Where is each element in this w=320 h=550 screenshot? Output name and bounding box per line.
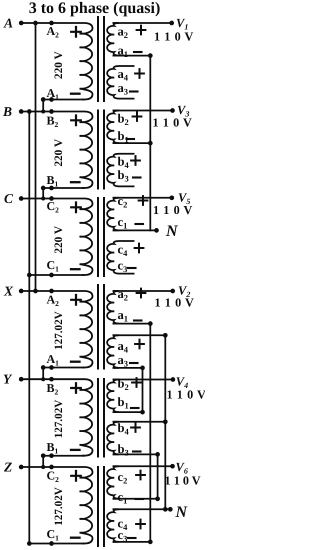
junction dot a4 corner <box>163 333 168 338</box>
svg-text:a2: a2 <box>118 25 129 41</box>
svg-text:220 V: 220 V <box>53 225 65 254</box>
svg-text:110V: 110V <box>155 296 195 310</box>
node V2 dot <box>170 289 175 294</box>
secondary winding a4-a3 y335.3 <box>107 335 119 368</box>
wire c2 to V5 <box>114 197 173 199</box>
junction dot B1-C <box>41 197 45 201</box>
svg-text:110V: 110V <box>154 30 194 44</box>
node V6 dot <box>170 464 175 469</box>
primary lead dot X <box>49 289 54 294</box>
polarity - c1 <box>136 498 144 500</box>
svg-text:c4: c4 <box>118 243 129 259</box>
secondary winding c2-c1 y466.2 <box>107 466 119 499</box>
wire C1 left segment <box>29 274 83 276</box>
secondary winding c2-c1 y197.8 <box>107 198 119 231</box>
secondary winding b2-b1 y379.5 <box>107 380 119 413</box>
polarity - b1 <box>127 138 135 140</box>
wire a4 to bus2 <box>114 335 166 509</box>
junction dot C1-bus T <box>27 273 32 278</box>
bank2 wire B1 to Z line <box>43 456 83 467</box>
svg-text:a3: a3 <box>118 353 129 369</box>
svg-text:220 V: 220 V <box>53 138 65 167</box>
node A terminal dot <box>19 21 24 26</box>
node Y terminal dot <box>19 377 24 382</box>
secondary winding a2-a1 y23 <box>107 23 119 56</box>
polarity + b4 <box>131 156 140 165</box>
svg-text:c2: c2 <box>118 194 128 210</box>
svg-text:B2: B2 <box>47 381 59 397</box>
polarity - b1 <box>131 407 139 409</box>
svg-text:b4: b4 <box>118 421 130 437</box>
svg-text:c1: c1 <box>118 215 128 231</box>
junction dot b1-a3 <box>140 410 145 415</box>
svg-text:Y: Y <box>3 372 13 387</box>
transformer primary winding B2-B1 (B phase) <box>20 112 93 189</box>
junction dot a3 corner <box>140 366 145 371</box>
transformer primary winding A2-A1 (X phase) <box>20 291 93 368</box>
junction dot bus2 end <box>163 507 168 512</box>
polarity + a2 <box>137 26 146 35</box>
wire B1 to C line <box>43 188 83 199</box>
node B terminal dot <box>19 109 24 114</box>
wire a1 to neutral bus <box>114 55 151 57</box>
polarity + a4 <box>135 69 144 78</box>
junction dot C1 bank2 end <box>27 541 32 546</box>
bank2 wire C1 left segment <box>29 543 83 545</box>
svg-text:A2: A2 <box>47 24 60 40</box>
junction dot A1-B <box>41 110 45 114</box>
primary lead dot Y <box>49 377 54 382</box>
svg-text:C: C <box>4 191 14 206</box>
node Z terminal dot <box>19 465 24 470</box>
primary lead dot A <box>49 21 54 26</box>
polarity - A1 <box>71 93 80 95</box>
junction dot A1 bank2 corner <box>41 365 46 370</box>
svg-text:127.02V: 127.02V <box>53 487 65 526</box>
polarity + B2 <box>71 383 81 393</box>
svg-text:A2: A2 <box>47 293 60 309</box>
wire b2 to V4 <box>114 379 173 381</box>
wire b4 joins a4 bus <box>114 421 166 423</box>
wire b3 to bus4 <box>114 454 158 498</box>
svg-text:110V: 110V <box>153 203 193 217</box>
svg-text:B1: B1 <box>47 440 59 456</box>
node N dot (bottom) <box>168 507 173 512</box>
svg-text:c1: c1 <box>118 490 128 506</box>
svg-text:Z: Z <box>3 460 12 475</box>
polarity - b3 <box>133 176 141 178</box>
svg-text:A1: A1 <box>47 352 60 368</box>
core segment 6 <box>98 467 104 546</box>
svg-text:C2: C2 <box>47 469 60 485</box>
node C terminal dot <box>19 196 24 201</box>
svg-text:N: N <box>175 504 189 521</box>
polarity + c2 <box>136 471 145 480</box>
svg-text:X: X <box>3 284 14 299</box>
transformer primary winding C2-C1 (C phase) <box>20 199 93 276</box>
wire b2 to V3 <box>114 110 173 112</box>
svg-text:127.02V: 127.02V <box>53 311 65 350</box>
junction dot X feed <box>33 289 38 294</box>
wire c1 joins b3 bus <box>114 498 158 500</box>
node V3 dot <box>170 108 175 113</box>
wire c3 to bus1 end <box>114 541 151 543</box>
primary lead dot B <box>49 109 54 114</box>
wire B to C1 bus <box>28 112 30 544</box>
wire a1 to bus1 <box>114 324 151 542</box>
polarity - C1 <box>71 268 80 270</box>
primary lead dot C <box>49 196 54 201</box>
junction dot B bus <box>27 109 32 114</box>
polarity + C2 <box>71 203 81 213</box>
wire b1 joins a3 bus <box>114 411 143 413</box>
secondary winding a2-a1 y291 <box>107 291 119 324</box>
wire b1 to neutral bus <box>114 142 151 144</box>
svg-text:b1: b1 <box>118 395 129 411</box>
wire A1 to B line <box>43 100 83 112</box>
transformer primary winding A2-A1 (A phase) <box>20 23 93 100</box>
svg-text:a3: a3 <box>118 81 129 97</box>
polarity - B1 <box>71 181 80 183</box>
svg-text:110V: 110V <box>165 474 201 488</box>
secondary winding b4-b3 y153.8 <box>107 154 133 187</box>
polarity - A1 <box>71 361 80 363</box>
secondary winding c4-c3 y509.3 <box>107 509 119 542</box>
junction dot B1 bank2 corner <box>41 453 46 458</box>
junction dot b4-bus <box>163 419 168 424</box>
polarity + c4 <box>136 520 145 529</box>
wire c1 to N <box>114 229 157 231</box>
node X terminal dot <box>19 289 24 294</box>
neutral bus top bank <box>149 56 151 231</box>
junction dot a1 corner <box>148 53 153 58</box>
svg-text:B: B <box>2 104 12 119</box>
polarity - c1 <box>136 223 144 225</box>
secondary winding b4-b3 y421.8 <box>107 422 119 455</box>
junction dot A1 corner <box>41 97 46 102</box>
polarity - c3 <box>128 537 136 539</box>
node V4 dot <box>171 377 176 382</box>
polarity - a1 <box>134 319 142 321</box>
svg-text:C2: C2 <box>47 199 60 215</box>
polarity + B2 <box>71 116 81 126</box>
core segment 3 <box>98 198 104 276</box>
polarity - a1 <box>134 51 142 53</box>
junction dot c1-b3 <box>155 496 160 501</box>
node V1 dot <box>169 21 174 26</box>
core segment 2 <box>98 111 104 189</box>
polarity - c3 <box>128 267 136 269</box>
transformer primary winding C2-C1 (Z phase) <box>20 467 93 544</box>
junction dot c3-bus1 <box>148 540 153 545</box>
primary bottom lead dot B1 <box>49 186 54 191</box>
wire A to X feed <box>35 23 37 291</box>
svg-text:A: A <box>3 16 13 31</box>
junction dot A1-Y <box>41 377 45 381</box>
primary lead dot Z <box>49 465 54 470</box>
polarity - C1 <box>71 537 80 539</box>
polarity - b3 <box>133 450 141 452</box>
core segment 4 <box>98 285 104 369</box>
wire c4 to N <box>114 508 171 510</box>
primary bottom lead dot A1 <box>49 97 54 102</box>
wire a3 to bus3 <box>114 368 143 412</box>
polarity + C2 <box>71 471 81 481</box>
polarity + a4 <box>135 340 144 349</box>
polarity + A2 <box>71 27 81 37</box>
node V5 dot <box>169 195 174 200</box>
secondary winding a4-a3 y66 <box>107 66 133 99</box>
wire a2 to V1 <box>114 22 172 24</box>
transformer primary winding B2-B1 (Y phase) <box>20 379 93 456</box>
svg-text:a2: a2 <box>118 287 129 303</box>
svg-text:N: N <box>165 223 179 240</box>
junction dot B1-Z <box>41 465 45 469</box>
junction dot b1-bus <box>148 141 153 146</box>
svg-text:C1: C1 <box>47 527 60 543</box>
polarity - a3 <box>130 362 138 364</box>
polarity + A2 <box>71 295 81 305</box>
svg-text:b3: b3 <box>118 168 129 184</box>
svg-text:b2: b2 <box>118 112 129 128</box>
polarity - B1 <box>71 449 80 451</box>
svg-text:a1: a1 <box>118 308 129 324</box>
svg-text:C1: C1 <box>47 258 60 274</box>
junction dot a1 corner (bank2) <box>148 321 153 326</box>
svg-text:c2: c2 <box>118 470 128 486</box>
core segment 5 <box>98 379 104 457</box>
polarity + b4 <box>131 423 140 432</box>
junction dot B1 corner <box>41 186 46 191</box>
svg-text:c3: c3 <box>118 259 128 275</box>
junction dot A feed <box>33 21 38 26</box>
svg-text:110V: 110V <box>153 116 193 130</box>
wire a2 to V2 <box>114 290 173 292</box>
primary bottom lead dot B1 <box>49 453 54 458</box>
polarity + b2 <box>132 378 141 387</box>
polarity + a2 <box>137 289 146 298</box>
secondary winding c4-c3 y241 <box>107 241 133 274</box>
svg-text:220 V: 220 V <box>53 51 65 80</box>
primary bottom lead dot C1 <box>49 273 54 278</box>
secondary winding b2-b1 y110.5 <box>107 111 119 144</box>
polarity + c4 <box>135 244 144 253</box>
svg-text:3 to 6 phase (quasi): 3 to 6 phase (quasi) <box>29 0 161 17</box>
svg-text:a1: a1 <box>118 44 129 60</box>
polarity + c2 <box>139 196 148 205</box>
primary bottom lead dot C1 <box>49 541 54 546</box>
node N dot (top) <box>154 228 159 233</box>
svg-text:B2: B2 <box>47 114 59 130</box>
junction dot b3 corner <box>155 452 160 457</box>
svg-text:127.02V: 127.02V <box>53 400 65 439</box>
bank2 wire A1 to Y line <box>43 368 83 380</box>
svg-text:b1: b1 <box>118 129 129 145</box>
polarity + b2 <box>133 112 142 121</box>
primary bottom lead dot A1 <box>49 365 54 370</box>
polarity - a3 <box>130 90 138 92</box>
wire c2 to V6 <box>114 465 173 467</box>
core segment 1 <box>98 17 104 101</box>
